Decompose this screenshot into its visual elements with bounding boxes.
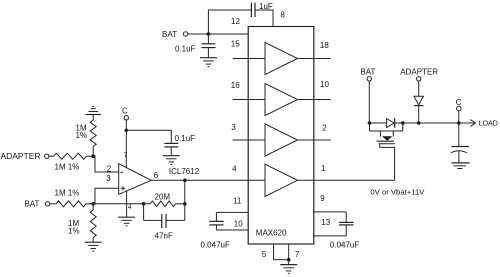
diode D1 (adapter) xyxy=(414,96,424,105)
wire output node down xyxy=(184,180,186,220)
svg-text:11: 11 xyxy=(233,196,242,205)
svg-text:1M 1%: 1M 1% xyxy=(55,163,80,172)
svg-text:0V or Vbat+11V: 0V or Vbat+11V xyxy=(370,190,424,197)
resistor R1 1M 1% (vertical, adapter divider) xyxy=(76,120,97,156)
capacitor C4 47nF xyxy=(144,214,185,240)
junction drain node xyxy=(401,121,405,125)
svg-text:0.047uF: 0.047uF xyxy=(201,241,230,250)
wire joining pins 5 and 7 xyxy=(274,259,289,261)
svg-text:10: 10 xyxy=(320,80,329,89)
svg-text:10: 10 xyxy=(234,219,243,228)
junction adapter node xyxy=(417,121,421,125)
wire op-amp pin 4 to ground xyxy=(126,191,128,217)
svg-text:0.1uF: 0.1uF xyxy=(175,134,196,143)
ground (below C3) xyxy=(163,147,180,165)
svg-text:7: 7 xyxy=(295,250,300,259)
pin 11 wire xyxy=(216,211,248,213)
wire node B to feedback xyxy=(93,203,143,205)
pin 5 lead xyxy=(273,244,275,260)
pin 10 wire (left) xyxy=(216,229,248,231)
junction on supply wire xyxy=(125,129,129,133)
pin 10 stub (right) xyxy=(298,99,331,101)
MOSFET Q1 (p-channel switch) xyxy=(370,123,403,180)
svg-text:6: 6 xyxy=(154,171,159,180)
pin 3 stub xyxy=(233,139,265,141)
junction at 20M left xyxy=(142,202,146,206)
wire bus right segment xyxy=(395,122,475,124)
svg-text:7: 7 xyxy=(124,152,128,159)
capacitor C2 0.1uF xyxy=(175,34,216,54)
junction output C node xyxy=(457,121,461,125)
terminal BAT (right) xyxy=(360,67,375,81)
buffer U1c xyxy=(265,124,298,156)
junction at 20M right xyxy=(183,202,187,206)
wire ADAPTER down to diode xyxy=(418,81,420,96)
pin 16 stub xyxy=(233,99,265,101)
pin 1 wire to MOSFET gate xyxy=(298,179,395,181)
svg-text:BAT: BAT xyxy=(24,200,39,209)
node divider A: inverted ground (top) xyxy=(86,106,101,120)
wire bus down to output cap xyxy=(458,123,460,146)
svg-text:1%: 1% xyxy=(68,227,80,236)
resistor R5 20M xyxy=(144,192,185,206)
capacitor C3 0.1uF xyxy=(164,134,195,147)
ground (below R4) xyxy=(85,242,102,251)
svg-text:0.047uF: 0.047uF xyxy=(330,241,359,250)
buffer U1d xyxy=(265,164,298,196)
pin 7 lead xyxy=(288,244,290,260)
svg-text:13: 13 xyxy=(321,218,330,227)
svg-text:15: 15 xyxy=(231,40,240,49)
ground (op-amp V-) xyxy=(118,217,135,226)
svg-text:8: 8 xyxy=(280,11,285,20)
pin 15 stub xyxy=(233,58,265,60)
resistor R2 1M 1% (from ADAPTER) xyxy=(49,153,93,171)
ground (output cap) xyxy=(452,151,470,168)
ground (below C2) xyxy=(200,48,217,67)
svg-text:C: C xyxy=(456,98,462,107)
svg-text:3: 3 xyxy=(106,174,111,183)
junction below pin 7 xyxy=(287,258,291,262)
svg-text:18: 18 xyxy=(320,41,329,50)
svg-text:20M: 20M xyxy=(155,192,171,201)
svg-text:LOAD: LOAD xyxy=(479,121,498,128)
pin 2 stub xyxy=(298,139,331,141)
wire op-amp output to pin 4 of U1 xyxy=(151,179,265,181)
resistor R4 1M 1% (vertical, bat divider) xyxy=(68,204,96,242)
svg-text:ADAPTER: ADAPTER xyxy=(1,152,41,161)
svg-text:ICL7612: ICL7612 xyxy=(169,167,200,176)
junction node A xyxy=(91,154,95,158)
svg-text:MAX620: MAX620 xyxy=(256,229,287,238)
svg-text:ADAPTER: ADAPTER xyxy=(400,67,438,76)
svg-text:4: 4 xyxy=(128,204,132,211)
terminal BAT (divider) xyxy=(24,200,49,209)
pin 13 wire xyxy=(314,235,346,237)
svg-text:9: 9 xyxy=(320,194,325,203)
diode D2 (across MOSFET) xyxy=(387,118,395,128)
wire BAT right down to bus xyxy=(368,81,370,123)
terminal BAT (left) xyxy=(162,30,188,39)
capacitor C7 (output, polarized) xyxy=(451,147,469,153)
svg-text:BAT: BAT xyxy=(162,30,177,39)
arrow to LOAD xyxy=(470,120,497,128)
junction on BAT wire xyxy=(207,32,211,36)
svg-text:BAT: BAT xyxy=(360,67,375,76)
svg-text:1%: 1% xyxy=(76,131,88,140)
svg-text:1: 1 xyxy=(321,164,326,173)
buffer U1a xyxy=(265,42,298,74)
junction output node xyxy=(183,179,187,183)
svg-text:1M 1%: 1M 1% xyxy=(55,189,80,198)
wire bus left segment xyxy=(370,122,387,124)
junction source node xyxy=(368,121,372,125)
terminal ADAPTER (left) xyxy=(1,152,49,161)
wire node B to op-amp pin 3 xyxy=(93,188,119,204)
wire junction to 0.1uF xyxy=(126,130,171,143)
svg-text:2: 2 xyxy=(107,164,112,173)
IC U1 MAX620 body xyxy=(248,27,314,245)
capacitor C1 1uF xyxy=(251,2,272,17)
wire 1uF to pin 8 xyxy=(255,10,273,27)
wire C terminal to bus xyxy=(458,111,460,123)
svg-text:0.1uF: 0.1uF xyxy=(175,45,196,54)
capacitor C6 0.047uF xyxy=(330,212,359,250)
svg-text:5: 5 xyxy=(262,250,267,259)
wire 20M left down to 47nF xyxy=(143,204,145,221)
wire C to op-amp pin 7 xyxy=(125,120,127,168)
wire diode to bus xyxy=(418,106,420,123)
wire BAT to pin 12 xyxy=(188,33,248,35)
resistor R3 1M 1% (from BAT) xyxy=(50,189,93,207)
svg-text:2: 2 xyxy=(322,124,327,133)
svg-text:16: 16 xyxy=(231,81,240,90)
op-amp U2 ICL7612 xyxy=(119,164,200,195)
capacitor C5 0.047uF xyxy=(201,212,230,249)
svg-text:3: 3 xyxy=(231,123,236,132)
svg-text:12: 12 xyxy=(231,17,240,26)
svg-text:47nF: 47nF xyxy=(155,231,173,240)
svg-text:C: C xyxy=(122,107,128,116)
junction node B xyxy=(91,202,95,206)
wire junction up to 1uF row xyxy=(208,10,251,34)
svg-text:4: 4 xyxy=(232,165,237,174)
pin 18 stub xyxy=(298,58,331,60)
ground (U1 supply) xyxy=(280,260,297,274)
terminal C (op-amp supply) xyxy=(122,107,129,120)
terminal ADAPTER (right) xyxy=(400,67,438,81)
wire node A to op-amp pin 2 xyxy=(93,156,119,172)
pin 9 wire xyxy=(314,211,346,213)
terminal C (right) xyxy=(456,98,462,111)
buffer U1b xyxy=(265,83,298,115)
